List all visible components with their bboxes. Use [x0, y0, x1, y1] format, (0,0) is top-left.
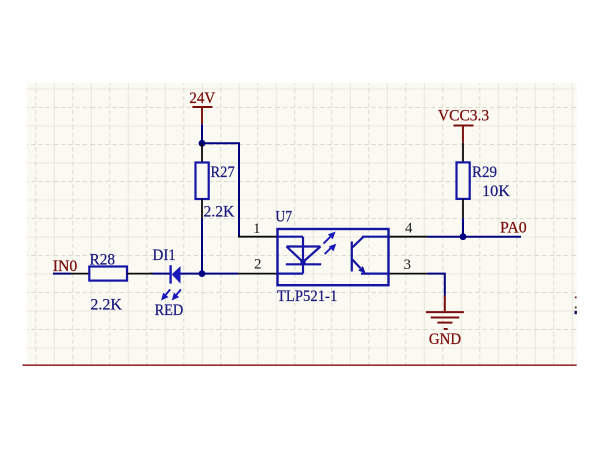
svg-text:VCC3.3: VCC3.3 [438, 107, 489, 124]
wire junction B to pin2 [202, 273, 238, 275]
wire pin4 to PA0 [428, 236, 522, 238]
LED DI1 [150, 247, 202, 319]
svg-text:U7: U7 [275, 208, 292, 225]
svg-text:R27: R27 [211, 164, 235, 181]
svg-text:2: 2 [254, 257, 262, 273]
svg-text:TLP521-1: TLP521-1 [277, 288, 337, 305]
wire 24V to junction [201, 124, 203, 143]
wire pin3 to GND [428, 274, 445, 296]
svg-text:GND: GND [429, 331, 461, 348]
LED arrow 2 [173, 289, 181, 298]
wire R27 bottom to junction B [201, 218, 203, 273]
LED arrow 1 [163, 289, 171, 298]
internal LED [278, 237, 322, 274]
power symbol 24V bar [192, 107, 212, 124]
sheet background [27, 83, 577, 365]
emitter arrowhead [358, 266, 365, 273]
pin 3 [389, 273, 428, 275]
opto arrow 2 [325, 245, 335, 254]
pin 4 [389, 236, 428, 238]
svg-text:10K: 10K [482, 183, 510, 200]
junction dot A [199, 140, 206, 147]
resistor R29 [457, 143, 511, 218]
svg-text:2.2K: 2.2K [90, 297, 122, 314]
resistor R27 [196, 143, 235, 220]
svg-text:DI1: DI1 [153, 247, 176, 264]
svg-text:R28: R28 [90, 251, 116, 268]
svg-text:24V: 24V [189, 90, 215, 107]
svg-text:4: 4 [405, 221, 413, 237]
svg-text:R29: R29 [472, 164, 497, 181]
svg-text:1: 1 [253, 221, 261, 237]
junction dot C [460, 233, 467, 240]
body [278, 229, 389, 285]
pin 2 [238, 273, 278, 275]
svg-text:2.2K: 2.2K [204, 204, 235, 221]
svg-text:PA0: PA0 [500, 220, 527, 237]
wire junction to pin1 riser [202, 143, 239, 236]
pin 1 [238, 236, 278, 238]
wire R29 bottom to junction C [462, 218, 464, 237]
svg-text:3: 3 [404, 257, 412, 273]
svg-text:RED: RED [155, 302, 184, 319]
power symbol VCC3.3 bar [454, 126, 474, 143]
junction dot B [199, 270, 206, 277]
optocoupler U7 [238, 208, 428, 305]
wire IN0 to R28 [53, 273, 71, 275]
clipped marks at sheet right edge [575, 297, 577, 299]
ground [426, 296, 464, 330]
sheet bottom border [23, 364, 577, 366]
internal phototransistor [352, 237, 389, 274]
sheet grid [27, 83, 577, 365]
resistor R28 [71, 251, 153, 313]
opto arrow 1 [324, 233, 335, 244]
